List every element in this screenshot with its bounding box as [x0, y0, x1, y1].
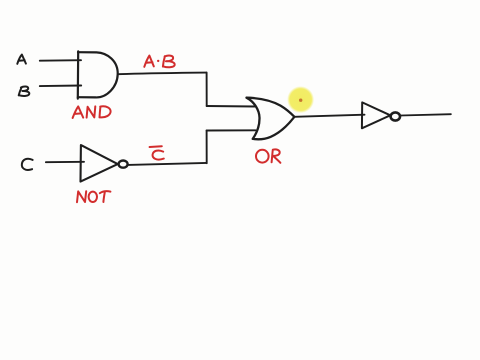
wire C input — [46, 161, 84, 163]
wire A input — [40, 59, 81, 62]
label OR — [256, 149, 280, 162]
node label C-bar — [150, 146, 164, 159]
wire AND output — [118, 73, 207, 75]
input label B — [19, 86, 30, 95]
wire B input — [40, 85, 81, 88]
wire NOT1 output — [128, 163, 206, 165]
bubble U4 — [391, 112, 400, 120]
wire OR top input — [207, 105, 256, 108]
NOT gate U2 — [81, 145, 118, 182]
AND gate U1 — [78, 51, 118, 98]
node label A·B — [144, 56, 174, 68]
NOT gate U4 — [362, 102, 390, 128]
input label A — [17, 55, 26, 64]
label NOT — [77, 191, 110, 202]
highlight cursor — [287, 86, 314, 113]
wire elbow up from NOT1 output — [206, 131, 208, 164]
wire OR bottom input — [207, 129, 256, 131]
wire elbow down from AND output — [206, 73, 208, 106]
bubble U2 — [119, 161, 128, 168]
wire final output — [400, 114, 451, 115]
wire OR output — [294, 115, 364, 117]
input label C — [22, 159, 33, 170]
OR gate U3 — [247, 98, 295, 140]
label AND — [73, 106, 111, 118]
